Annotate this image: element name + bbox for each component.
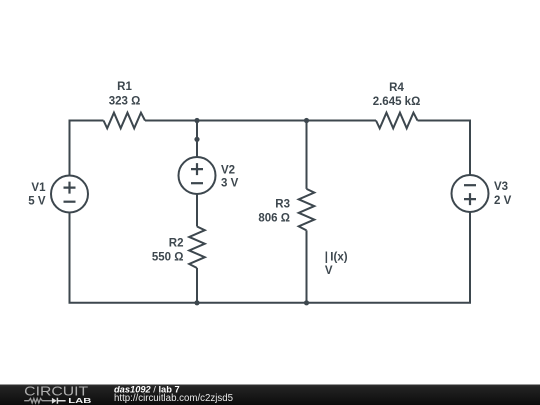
svg-text:V2: V2	[221, 165, 235, 177]
svg-text:3 V: 3 V	[221, 178, 239, 190]
svg-text:2 V: 2 V	[494, 195, 512, 207]
svg-text:V3: V3	[494, 181, 508, 193]
svg-text:V1: V1	[31, 182, 46, 194]
svg-text:R1: R1	[117, 81, 132, 93]
svg-text:I(x): I(x)	[330, 252, 347, 264]
svg-text:550 Ω: 550 Ω	[152, 252, 184, 264]
svg-text:5 V: 5 V	[28, 196, 46, 208]
svg-text:http://circuitlab.com/c2zjsd5: http://circuitlab.com/c2zjsd5	[114, 393, 233, 404]
svg-text:R2: R2	[169, 237, 184, 249]
svg-text:806 Ω: 806 Ω	[258, 213, 290, 225]
svg-text:V: V	[325, 265, 333, 277]
svg-text:|: |	[325, 252, 328, 264]
svg-text:323 Ω: 323 Ω	[109, 96, 141, 108]
svg-text:2.645 kΩ: 2.645 kΩ	[373, 96, 421, 108]
svg-text:R3: R3	[275, 199, 290, 211]
svg-text:LAB: LAB	[68, 396, 91, 405]
svg-text:R4: R4	[389, 82, 404, 94]
